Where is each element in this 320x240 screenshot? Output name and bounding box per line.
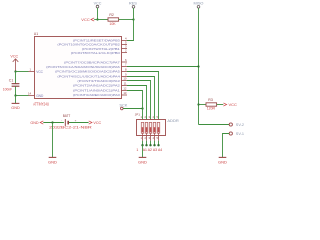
wire GND flag to battery — [43, 122, 64, 124]
JP1 contact 2 — [145, 122, 148, 133]
svg-text:(PCINT8/XTAL1/CLKI)PB0: (PCINT8/XTAL1/CLKI)PB0 — [71, 51, 120, 55]
JP1 contact 4 — [153, 122, 156, 133]
label flag VCC battery — [89, 121, 102, 125]
label flag VCC left — [81, 17, 94, 22]
junction C1/GND — [14, 94, 16, 96]
wire MISO junction to R3 — [199, 104, 207, 106]
U1 left pin stubs — [29, 72, 35, 96]
svg-text:SV-2: SV-2 — [236, 123, 244, 127]
svg-text:ATTINY24U: ATTINY24U — [33, 101, 49, 106]
svg-text:A2: A2 — [148, 148, 152, 152]
wire PA5 to header pin5 — [127, 72, 159, 123]
svg-text:R3: R3 — [208, 98, 213, 102]
wire VCC junction to U1 VCC pin — [16, 71, 29, 73]
wire MISO vertical — [198, 8, 200, 124]
wire MISO bend to pad SV-2 — [199, 124, 230, 126]
svg-text:(PCINT0/AREF/ADC0)PA0: (PCINT0/AREF/ADC0)PA0 — [73, 93, 120, 97]
U1 right pin stubs — [122, 41, 128, 96]
svg-text:-: - — [61, 119, 62, 123]
supply VCC symbol top — [94, 1, 102, 8]
junction VCC/C1 left — [14, 70, 16, 72]
wirepad SCK — [119, 103, 127, 110]
svg-text:+: + — [75, 119, 77, 123]
net labels under header pins — [136, 148, 162, 152]
wire R3 to VCC flag — [217, 104, 224, 106]
battery BATT — [61, 119, 76, 126]
svg-text:GND: GND — [48, 160, 57, 165]
svg-text:VCC: VCC — [93, 121, 101, 125]
wire SCK to header column 1 — [123, 108, 142, 110]
JP1 pin numbers top — [140, 115, 158, 119]
svg-text:GND: GND — [36, 94, 44, 98]
junction MISO/R3 — [197, 103, 199, 105]
JP1 bottom pin stubs — [143, 136, 159, 141]
capacitor C1 — [12, 84, 20, 87]
svg-text:(PCINT3/T0/ADC3)PA3: (PCINT3/T0/ADC3)PA3 — [77, 79, 120, 83]
svg-text:ADDR: ADDR — [167, 118, 178, 123]
junction MISO/PA6 — [197, 65, 199, 67]
wire VCC flag to R2 — [94, 19, 108, 21]
wire PA6 to MISO net — [127, 66, 199, 68]
JP1 pin numbers bottom — [140, 136, 158, 140]
svg-text:GND: GND — [218, 160, 227, 165]
wire R2 to RES net — [119, 19, 134, 21]
svg-text:SV-1: SV-1 — [236, 132, 244, 136]
ground symbol under header — [138, 157, 147, 164]
svg-text:GND: GND — [30, 121, 39, 125]
svg-text:BATT: BATT — [63, 114, 71, 118]
JP1 contact 1 — [141, 122, 144, 133]
wire PA2 to header pin2 — [127, 86, 147, 123]
svg-text:VCC: VCC — [94, 1, 102, 5]
svg-text:A3: A3 — [153, 148, 157, 152]
ic U1 box ATTINY24 — [35, 37, 122, 99]
wire VCC junction down to C1 — [15, 72, 17, 84]
wirepad RES top — [129, 1, 137, 9]
U1 pin numbers right — [123, 37, 127, 96]
svg-text:VCC: VCC — [36, 70, 43, 74]
svg-text:RES: RES — [129, 1, 137, 6]
svg-text:11: 11 — [124, 82, 127, 86]
junction battery/GND net — [51, 121, 53, 123]
wire battery junction down to ground — [52, 123, 54, 158]
svg-text:(PCINT1/AIN0/ADC1)PA1: (PCINT1/AIN0/ADC1)PA1 — [73, 89, 120, 93]
JP1 contact 5 — [157, 122, 160, 133]
wirepad SV-2 — [229, 123, 244, 127]
svg-text:MISO: MISO — [194, 1, 204, 6]
svg-text:U1: U1 — [34, 32, 38, 36]
resistor R3 — [206, 103, 217, 106]
ground symbol left under C1 — [11, 96, 20, 110]
wirepad MISO top right — [194, 1, 204, 9]
wire battery to VCC flag — [69, 122, 89, 124]
svg-text:(PCINT6/OC1A/SDA/MOSI/DI/ADC6): (PCINT6/OC1A/SDA/MOSI/DI/ADC6)PA6 — [46, 65, 120, 69]
svg-text:13: 13 — [123, 91, 127, 95]
svg-text:12: 12 — [123, 87, 127, 91]
svg-text:(PCINT4/SCL/USCK/T1/ADC4)PA4: (PCINT4/SCL/USCK/T1/ADC4)PA4 — [57, 75, 120, 79]
ground symbol right — [218, 157, 227, 164]
svg-text:10: 10 — [123, 77, 127, 81]
supply VCC arrow left — [10, 55, 18, 72]
svg-text:VCC: VCC — [81, 17, 90, 22]
wire PA3 to header pin3 — [127, 81, 151, 123]
wire PA4 to header pin4 — [127, 77, 155, 123]
svg-text:10K: 10K — [109, 22, 116, 26]
svg-text:(PCINT7/OC0B/ICP/ADC7)PA7: (PCINT7/OC0B/ICP/ADC7)PA7 — [64, 60, 120, 64]
resistor R2 — [108, 18, 119, 21]
JP1 contact 3 — [149, 122, 152, 133]
wire VCC pad down to R2 net — [97, 8, 99, 20]
wire GND junction to U1 GND pin — [16, 95, 29, 97]
svg-text:GND: GND — [11, 106, 20, 110]
svg-text:A4: A4 — [158, 148, 162, 152]
wire RES net vertical to PB3 — [127, 8, 134, 40]
wire header pin1 down to ground — [142, 145, 144, 157]
svg-text:2032BC2-21-NBR: 2032BC2-21-NBR — [49, 126, 92, 130]
wire PA1 to header pin1 — [127, 91, 143, 123]
junction VCC/R2 — [96, 18, 98, 20]
svg-text:14: 14 — [28, 92, 32, 96]
svg-text:R2: R2 — [109, 13, 114, 17]
svg-text:A1: A1 — [143, 148, 147, 152]
JP1 inner pin leads — [143, 133, 159, 135]
wirepad SV-1 — [229, 132, 244, 136]
svg-text:(PCINT2/AIN1/ADC2)PA2: (PCINT2/AIN1/ADC2)PA2 — [73, 84, 120, 88]
label flag VCC right of R3 — [223, 102, 237, 107]
wire C1 to GND junction — [15, 87, 17, 96]
svg-text:GND: GND — [138, 160, 147, 165]
wire SV-1 to ground — [223, 134, 230, 158]
svg-text:C1: C1 — [9, 79, 14, 83]
junction R2/RES — [132, 18, 134, 20]
junction dots under header — [141, 144, 159, 146]
svg-text:(PCINT5/OC1B/MISO/DO/ADC5)PA5: (PCINT5/OC1B/MISO/DO/ADC5)PA5 — [55, 70, 120, 74]
svg-text:120R: 120R — [207, 106, 216, 110]
JP1 bottom pin wires — [143, 141, 159, 145]
svg-text:100nF: 100nF — [3, 88, 12, 92]
label flag GND battery — [30, 121, 43, 125]
junction SCK/column1 — [141, 107, 143, 109]
connector JP1 box — [137, 120, 166, 136]
svg-text:1: 1 — [136, 148, 138, 152]
ground symbol bottom left — [48, 157, 57, 164]
svg-text:SCK: SCK — [119, 103, 127, 108]
U1 pin numbers left — [28, 68, 32, 96]
svg-text:VCC: VCC — [229, 102, 238, 107]
svg-text:VCC: VCC — [10, 55, 18, 59]
